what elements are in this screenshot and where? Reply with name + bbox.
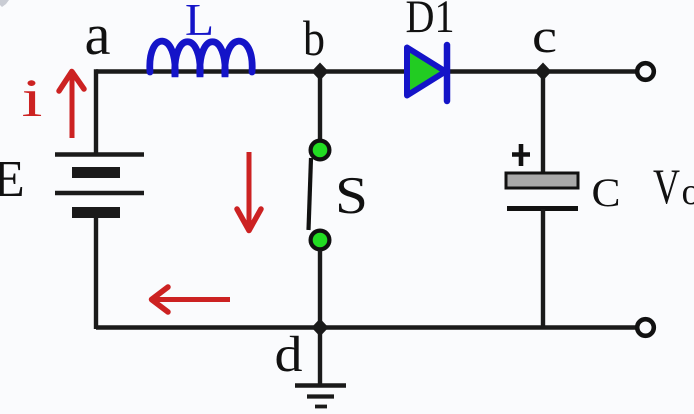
svg-text:L: L (185, 0, 214, 45)
switch S bottom contact (311, 231, 330, 250)
svg-text:c: c (532, 10, 557, 63)
switch S blade (309, 158, 312, 230)
node c junction dot (535, 63, 552, 81)
wire capacitor to bottom rail (541, 209, 545, 327)
wire bottom rail (96, 325, 637, 329)
current arrow up (70, 76, 75, 138)
arrow left (return current) (156, 297, 230, 302)
battery E bar thick 1 (72, 167, 120, 178)
inductor L coil (150, 41, 252, 77)
ground bar 3 (315, 405, 327, 409)
ground bar 2 (307, 394, 334, 398)
capacitor C bottom plate (507, 206, 578, 211)
svg-text:C: C (592, 170, 621, 215)
switch wire bottom contact to d (318, 250, 322, 327)
diode D1 cathode bar (444, 45, 451, 101)
ground stem at d (318, 327, 322, 385)
arrow down (switch current) (247, 152, 252, 226)
node b junction dot (312, 63, 329, 81)
ground bar 1 (295, 383, 346, 387)
wire battery to bottom rail (94, 214, 98, 329)
switch S top contact (311, 141, 330, 160)
battery E plate long top (55, 152, 144, 157)
wire left vertical a to battery (94, 69, 98, 153)
svg-text:o: o (682, 171, 694, 213)
corner smudge (0, 0, 9, 7)
svg-text:d: d (275, 327, 303, 383)
output terminal bottom (637, 319, 654, 336)
svg-text:a: a (85, 2, 111, 67)
capacitor C top plate (506, 173, 578, 188)
output terminal top (637, 63, 654, 80)
battery E plate long bottom (55, 191, 144, 196)
svg-text:i: i (22, 68, 43, 128)
svg-text:b: b (303, 10, 325, 66)
wire top rail a-b-diode (96, 69, 406, 73)
svg-text:E: E (0, 151, 25, 208)
node d junction dot (312, 319, 329, 337)
capacitor C plus sign (512, 144, 530, 166)
battery E bar thick 2 (72, 207, 120, 218)
svg-text:D1: D1 (406, 0, 455, 43)
switch wire b to top contact (318, 71, 322, 140)
wire top rail cathode-c-terminal (444, 69, 637, 73)
svg-text:S: S (335, 167, 368, 225)
diode D1 triangle (407, 48, 446, 96)
wire c to capacitor (541, 71, 545, 175)
svg-text:V: V (653, 158, 680, 214)
